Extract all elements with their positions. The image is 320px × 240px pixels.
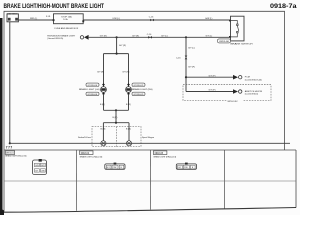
svg-text:G/Y (P): G/Y (P) [209,75,216,77]
fuse F-01 STOP 10A [46,14,84,30]
svg-text:777: 777 [6,146,13,150]
DSC variant dashed box [183,85,271,101]
footer col2 connector pinout [105,163,125,170]
svg-text:W/R (L): W/R (L) [30,18,37,20]
svg-text:BRAKE LIGHT (LH)(Cont'd): BRAKE LIGHT (LH)(Cont'd) [80,156,103,159]
svg-text:B (R): B (R) [101,128,106,130]
svg-text:G/Y (L): G/Y (L) [161,35,168,37]
svg-text:G/W (L): G/W (L) [205,18,213,20]
svg-text:B (R): B (R) [126,104,131,106]
off-page connector to DSC [233,89,242,94]
footer row divider [4,180,296,182]
svg-text:G/Y (R): G/Y (R) [97,71,104,73]
wire row2 to brake switch [89,36,231,38]
svg-text:BRAKE LIGHT (RH)(Cont'd): BRAKE LIGHT (RH)(Cont'd) [154,156,177,159]
pill ref below LH lamp [86,92,99,96]
svg-text:10 A: 10 A [63,18,68,21]
footer right border [295,150,297,208]
svg-text:B (R): B (R) [113,117,118,119]
svg-text:PCM: PCM [245,77,250,79]
svg-text:G/Y (R): G/Y (R) [132,35,139,37]
wire battery to fuse [18,19,53,21]
node junction row2 right [185,36,187,38]
svg-text:Sport Wagon: Sport Wagon [142,136,155,139]
pill ref above RH lamp [132,83,145,87]
svg-text:0918-04: 0918-04 [81,153,90,155]
pill ref below RH lamp [132,92,145,96]
svg-text:(Cont'd 0918-3): (Cont'd 0918-3) [245,93,258,96]
svg-text:U/W (L): U/W (L) [113,18,120,20]
svg-text:G/Y (L): G/Y (L) [188,47,195,49]
svg-text:B (R): B (R) [100,104,105,106]
svg-text:BRAKE LIGHT (RH): BRAKE LIGHT (RH) [132,88,153,91]
svg-text:0918-05: 0918-05 [155,153,164,155]
inline connector C-16 vertical [176,56,187,60]
ground symbol left [101,141,106,146]
svg-text:0918-04: 0918-04 [88,85,99,87]
connector ref pill at brake switch [218,39,231,43]
svg-text:0918-04: 0918-04 [88,94,99,96]
wire branch to PCM [185,76,233,78]
svg-text:0918-06: 0918-06 [219,41,230,43]
footer column divider 2 [150,150,152,210]
svg-text:0918-7a: 0918-7a [270,3,297,10]
battery [7,12,18,21]
main diagram border [4,11,285,150]
svg-text:21W: 21W [113,167,117,169]
scan artifact bottom page edge [0,208,296,213]
wire to right ground [128,123,130,141]
svg-text:BRAKE SWITCH: BRAKE SWITCH [231,43,254,46]
svg-text:F-01: F-01 [46,16,51,18]
wire ground branch tee [103,122,129,124]
wire vertical 2 to PCM/DSC [185,37,187,91]
svg-text:G/Y (R): G/Y (R) [100,35,107,37]
footer top border [4,149,296,151]
wire fuse to brake switch [83,19,230,21]
wire to left ground [102,123,104,141]
wire lamp join [104,109,129,111]
scan artifact left black bar [0,18,3,215]
wire vertical to lamp branch [116,37,118,53]
footer col3 tab 0918-05 [153,151,167,155]
node lamp branch tee [104,53,129,55]
svg-text:0918-01: 0918-01 [6,153,15,155]
svg-text:G/W: G/W [35,165,39,167]
off-page connector to high-mount brake light [80,35,88,40]
svg-text:BATTERY: BATTERY [7,12,17,15]
ground symbol right [126,141,131,146]
svg-text:BRAKE LIGHT (LH): BRAKE LIGHT (LH) [79,88,100,91]
svg-text:21W: 21W [184,167,188,169]
wire below LH lamp [103,94,105,110]
svg-text:G/Y (L): G/Y (L) [206,35,213,37]
wire below RH lamp [128,94,130,110]
inline connector C-16 row1 [149,17,154,22]
pill ref above LH lamp [86,83,99,87]
svg-text:FUSE AND RELAY BOX: FUSE AND RELAY BOX [55,27,79,30]
brake switch [229,16,253,45]
svg-text:(Cont'd 0918-75-06): (Cont'd 0918-75-06) [245,78,262,81]
footer col3 connector pinout [176,163,196,170]
scan artifact bottom left corner [0,208,4,215]
svg-text:G/Y (R): G/Y (R) [122,71,129,73]
svg-text:HIGH-MOUNT BRAKE LIGHT: HIGH-MOUNT BRAKE LIGHT [47,35,76,38]
label WITH DSC [227,99,243,103]
footer col1 connector pinout [33,159,47,175]
wire battery negative down [9,22,11,144]
footer col2 tab 0918-04 [80,151,94,155]
wire to left brake light [103,54,105,87]
svg-text:BRAKE LIGHT/HIGH-MOUNT BRAKE L: BRAKE LIGHT/HIGH-MOUNT BRAKE LIGHT [4,3,105,10]
wire ground bus [10,142,290,144]
svg-text:BRAKE SWITCH(Cont'd): BRAKE SWITCH(Cont'd) [5,155,26,158]
svg-text:G/Y (P): G/Y (P) [209,90,216,92]
footer column divider 1 [75,150,77,211]
inline connector C-16 row2 [147,34,152,39]
wire branch to DSC [186,91,233,93]
svg-text:Sedan/5-Door: Sedan/5-Door [78,136,91,139]
svg-text:U/W: U/W [41,171,45,173]
svg-text:ABS/TCS HU/CM: ABS/TCS HU/CM [245,90,262,93]
off-page connector to PCM [233,75,242,80]
svg-text:0918-05: 0918-05 [134,85,145,87]
svg-text:0918-05: 0918-05 [134,94,145,96]
svg-text:G/Y (R): G/Y (R) [119,45,126,47]
brake light LH lamp [101,83,107,95]
ground variant dashed box [92,127,141,147]
svg-text:(Ground 0918-7b): (Ground 0918-7b) [47,38,63,40]
svg-text:G/Y (P): G/Y (P) [188,66,195,68]
svg-text:B (R): B (R) [126,128,131,130]
node battery ground bus corner [9,142,11,144]
footer column divider 3 [224,150,226,209]
brake light RH lamp [126,83,132,95]
svg-text:WITH DSC: WITH DSC [228,101,239,103]
node junction row2 left [116,36,118,38]
footer col1 tab 0918-01 [5,151,15,155]
wire down from join [115,110,117,122]
wire to right brake light [128,54,130,87]
footer left border [3,150,5,212]
